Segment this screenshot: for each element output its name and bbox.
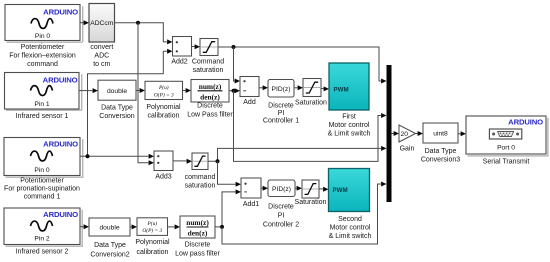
wire Add2 to Command saturation [192,44,201,49]
svg-text:O(P) = 3: O(P) = 3 [142,227,162,234]
wire command 1 branch down to Add3 input 2 [138,23,154,166]
caption Command saturation [192,58,224,73]
caption Potentiometer / For pronation-supination / command 1 [4,178,80,201]
caption Discrete PI Controller 1 [263,102,299,124]
svg-text:Saturation: Saturation [295,199,327,206]
svg-text:For flexion–extension: For flexion–extension [9,53,76,60]
wire pot1 to ADCcm [80,20,89,25]
Saturation block 2 [302,180,319,198]
svg-text:For pronation-supination: For pronation-supination [4,186,80,193]
Data Type Conversion3 uint8 block [423,123,458,143]
caption Data Type Conversion3 [421,148,460,163]
svg-text:Data Type: Data Type [425,148,457,155]
svg-text:to cm: to cm [93,61,110,68]
command saturation block 2 [192,153,208,170]
caption convert ADC to cm [90,44,113,68]
Serial Transmit Port 0 block [466,116,549,157]
svg-text:ADCcm: ADCcm [90,20,113,27]
wire poly2 to filter 2 [168,224,181,229]
caption Polynomial calibration 2 [135,239,170,256]
svg-text:& Limit switch: & Limit switch [329,233,372,240]
svg-text:Discrete: Discrete [185,241,211,248]
svg-text:PI: PI [278,110,285,117]
Second Motor control subsystem (cyan) [329,169,370,212]
svg-text:command: command [27,61,58,68]
ADCcm converter block [89,4,115,43]
svg-text:ADC: ADC [94,53,109,60]
wire Command saturation to mux port 1 [218,47,387,84]
svg-text:uint8: uint8 [433,131,448,138]
svg-text:ARDUINO: ARDUINO [43,75,78,84]
svg-text:Low Pass filter: Low Pass filter [187,111,233,118]
svg-text:command 1: command 1 [24,193,61,200]
wire filter1 to Add input 2 [229,88,240,93]
caption Second Motor control & Limit switch [329,216,372,240]
svg-text:ARDUINO: ARDUINO [508,118,543,127]
wire pot2 to Add3 input 1 [80,154,154,159]
svg-text:Command: Command [192,58,224,65]
svg-text:Data Type: Data Type [94,242,126,249]
svg-text:Pin 1: Pin 1 [34,101,50,108]
wire pot2 branch up to Add2 input 2 [88,49,173,156]
potentiometer Pin 0 block (pronation-supination command 1) [4,138,84,178]
svg-text:Potentiometer: Potentiometer [20,178,64,185]
First Motor control subsystem (cyan) [329,63,369,110]
Polynomial calibration block P(u) O(P)=3 [145,81,183,99]
Discrete PI Controller 1 PID(z) [268,80,294,98]
wire Add1 to PID 2 [261,186,268,191]
svg-text:Infrared sensor 1: Infrared sensor 1 [16,113,69,120]
Data Type Conversion double block [98,80,136,100]
svg-text:command: command [185,174,216,181]
wire filter2 to Add1 input 2 [215,189,241,227]
wire double to Polynomial [136,88,145,93]
svg-text:den(z): den(z) [200,92,220,101]
junction dot command saturation out [232,45,236,49]
caption First Motor control & Limit switch [328,114,371,138]
caption Potentiometer / For flexion-extension / command [9,44,76,68]
wire branch down to Add input 1 [234,47,241,84]
svg-text:Gain: Gain [400,145,415,152]
svg-text:convert: convert [90,44,113,51]
svg-text:Add3: Add3 [155,174,171,181]
wire double2 to Polynomial calibration 2 [130,224,137,229]
Polynomial calibration 2 block [137,218,168,236]
infrared sensor 1 Pin 1 block [5,73,83,111]
junction dot command 1 [136,21,140,25]
svg-text:Pin 0: Pin 0 [34,167,50,174]
potentiometer Pin 0 block (flexion-extension command) [5,5,83,43]
infrared sensor 2 Pin 2 block [4,208,83,247]
wire PID2 to Saturation 2 [295,186,302,191]
wire Gain to uint8 [416,131,424,136]
svg-text:Controller 1: Controller 1 [263,117,299,124]
caption Data Type Conversion [99,105,135,120]
svg-text:saturation: saturation [185,183,216,190]
caption Discrete Low pass filter 2 [175,241,220,257]
svg-text:Discrete: Discrete [268,102,294,109]
svg-text:Potentiometer: Potentiometer [21,44,65,51]
svg-text:ARDUINO: ARDUINO [43,8,78,17]
sum block Add1 [241,178,261,198]
svg-text:calibration: calibration [137,249,169,256]
wire branch down to Add1 input 1 [218,161,242,187]
svg-text:PID(z): PID(z) [272,186,291,193]
svg-text:PWM: PWM [333,187,348,194]
Data Type Conversion2 double block [89,218,130,236]
svg-text:Controller 2: Controller 2 [263,222,299,229]
sum block Add3 [154,151,173,171]
caption Data Type Conversion2 [90,242,129,258]
svg-text:double: double [99,225,119,232]
junction dot command saturation 2 out [216,159,220,163]
svg-text:Second: Second [338,216,362,223]
wire ADCcm to Add2 input 1 [115,23,173,45]
junction dot measurement 1 [232,89,236,93]
svg-text:Polynomial: Polynomial [135,239,170,246]
wire Add to PID 1 [259,85,268,90]
svg-text:Pin 0: Pin 0 [35,33,51,40]
svg-text:PWM: PWM [334,87,349,94]
svg-text:P(u): P(u) [158,84,169,91]
svg-text:ARDUINO: ARDUINO [43,139,78,148]
svg-text:calibration: calibration [148,112,180,119]
svg-text:First: First [342,114,356,121]
sum block Add2 [173,37,192,57]
mux bar [387,65,392,202]
serial DB9 connector icon [489,129,521,139]
svg-text:Add: Add [243,99,256,106]
svg-text:den(z): den(z) [188,228,208,237]
svg-text:O(P) = 3: O(P) = 3 [154,91,174,98]
svg-text:20: 20 [401,131,409,138]
wire measurement 1 loop to mux port 2 [234,91,387,162]
Saturation block 1 [303,79,321,97]
junction dot measurement 2 [220,225,224,229]
caption command saturation 2 [185,174,216,190]
svg-text:Low pass filter: Low pass filter [175,251,220,258]
gain triangle 20 [399,125,416,142]
wire PID 1 to Saturation [294,85,303,90]
svg-text:num(z): num(z) [199,82,222,91]
svg-text:saturation: saturation [193,67,224,74]
wire uint8 to Serial Transmit [458,131,466,136]
caption Discrete PI Controller 2 [263,204,299,229]
svg-text:Conversion3: Conversion3 [421,156,460,163]
svg-text:Discrete: Discrete [197,103,223,110]
wire measurement 2 loop to mux port 4 [222,182,387,245]
wire command saturation 2 to mux port 3 [208,146,387,161]
svg-text:Add2: Add2 [171,59,187,66]
Command saturation block [200,39,218,56]
svg-text:Infrared sensor 2: Infrared sensor 2 [16,248,69,255]
wire Add3 to command saturation 2 [173,159,192,164]
sum block Add [240,77,259,97]
wire Saturation 2 to Second Motor control [319,187,329,192]
wire mux to Gain [392,131,400,136]
svg-text:PI: PI [278,213,285,220]
svg-text:Conversion: Conversion [99,113,135,120]
wire ir2 to double 2 [80,224,89,229]
svg-text:Data Type: Data Type [101,105,133,112]
svg-text:Saturation: Saturation [295,100,327,107]
svg-text:Motor control: Motor control [329,122,370,129]
svg-text:Conversion2: Conversion2 [90,251,129,258]
svg-text:Pin 2: Pin 2 [34,235,50,242]
svg-text:Add1: Add1 [243,201,259,208]
svg-text:PID(z): PID(z) [272,86,291,93]
wire Saturation to First Motor control [321,86,329,91]
svg-text:P(u): P(u) [147,220,158,227]
svg-text:num(z): num(z) [186,218,209,227]
Discrete Low Pass filter 1 num(z)/den(z) [191,80,229,103]
svg-text:ARDUINO: ARDUINO [43,210,78,219]
svg-text:& Limit switch: & Limit switch [328,131,371,138]
svg-text:Serial Transmit: Serial Transmit [483,158,530,165]
svg-text:Discrete: Discrete [268,204,294,211]
Discrete PI Controller 2 PID(z) [268,180,295,197]
wire Polynomial to Discrete Low Pass filter [183,88,192,93]
svg-text:Polynomial: Polynomial [146,104,181,111]
svg-text:Port 0: Port 0 [497,145,515,152]
junction dot command 2 [86,154,90,158]
wire ir1 to double [79,88,98,93]
svg-text:Motor control: Motor control [330,225,371,232]
caption Discrete Low Pass filter [187,103,233,119]
Discrete Low pass filter 2 num(z)/den(z) [180,216,215,238]
caption Polynomial calibration [146,104,181,119]
svg-text:double: double [107,88,127,95]
